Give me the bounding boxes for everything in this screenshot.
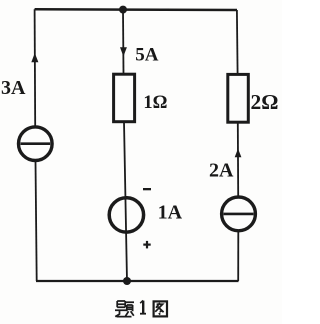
svg-text:5A: 5A (135, 44, 159, 65)
node bottom junction dot (123, 277, 131, 285)
svg-text:1A: 1A (158, 201, 183, 223)
polarity minus of 1A source (143, 188, 151, 190)
wire right branch middle (237, 123, 239, 196)
svg-text:3A: 3A (1, 77, 26, 99)
arrow 3A up (31, 53, 38, 62)
current source I1 (3A) (19, 127, 53, 161)
current source / source U (1A) (109, 198, 143, 232)
arrow 5A down (120, 47, 127, 56)
svg-text:2A: 2A (209, 160, 234, 182)
svg-text:2Ω: 2Ω (251, 90, 279, 114)
wire middle branch lower through source (124, 122, 127, 281)
wire left branch lower (36, 162, 37, 282)
arrow 2A up (235, 149, 242, 158)
wire middle branch upper (122, 10, 125, 75)
wire bottom horizontal (36, 280, 239, 282)
node top junction dot (119, 6, 127, 14)
svg-text:1Ω: 1Ω (143, 93, 167, 113)
wire right branch upper (236, 10, 239, 75)
caption hanzi 题 (drawn) (115, 301, 134, 317)
wire right branch lower (237, 231, 239, 281)
resistor R2 (2Ω) (228, 74, 249, 122)
resistor R1 (1Ω) (114, 74, 135, 122)
wire top horizontal (35, 8, 237, 11)
current source I2 (2A) (222, 197, 256, 231)
caption hanzi 图 (drawn) (154, 301, 167, 316)
caption digit 1 (drawn) (140, 300, 146, 313)
polarity plus of 1A source (143, 244, 150, 246)
wire left branch upper (34, 9, 37, 126)
